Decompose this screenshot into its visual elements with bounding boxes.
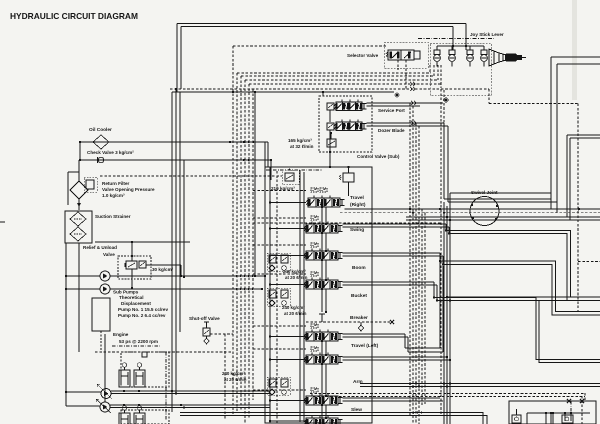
- joystick links: [437, 45, 484, 47]
- pilot row 4: [311, 272, 318, 276]
- motor component left: [512, 415, 521, 423]
- return filter: [67, 172, 69, 205]
- svg-text:Boom: Boom: [352, 265, 366, 271]
- wire: travel left step pair: [405, 347, 440, 349]
- pilot row 5: [311, 324, 318, 328]
- wire: top return pair: [177, 23, 466, 25]
- svg-text:1.0 kg/cm³: 1.0 kg/cm³: [102, 193, 125, 198]
- wire: inter-valve stubs: [321, 207, 323, 224]
- wire: left edge tick: [0, 221, 5, 223]
- bottom valve partial: [306, 418, 338, 424]
- svg-text:Joy Stick Lever: Joy Stick Lever: [470, 32, 504, 37]
- svg-text:Relief & Unload: Relief & Unload: [83, 245, 117, 250]
- wire: tank feed verticals: [65, 243, 67, 406]
- svg-text:30 kg/cm²: 30 kg/cm²: [152, 267, 174, 272]
- engine: [92, 298, 110, 331]
- wire: valve inlet connectors: [270, 202, 306, 204]
- sub pump 1: [100, 271, 110, 281]
- slew valve: [306, 396, 338, 405]
- svg-text:Control Valve (Sub): Control Valve (Sub): [357, 154, 400, 159]
- pilot row 7: [311, 388, 318, 392]
- wire: pilot dashed horizontals to joystick: [233, 45, 386, 47]
- svg-text:at 20 ℓ/min: at 20 ℓ/min: [285, 275, 308, 280]
- pump cylinder 3: [119, 413, 130, 424]
- dozer blade valve: [336, 122, 362, 131]
- svg-text:Oil Cooler: Oil Cooler: [89, 127, 112, 133]
- swing valve: [306, 224, 338, 233]
- wire: staircase A: [446, 231, 571, 298]
- svg-text:Slew: Slew: [351, 407, 362, 413]
- wire: bottom long pair: [360, 383, 600, 385]
- svg-text:Arm: Arm: [353, 379, 363, 385]
- svg-text:Sub Pumps: Sub Pumps: [113, 290, 139, 295]
- wire: staircase A bottom pair: [447, 296, 600, 298]
- svg-text:Return Filter: Return Filter: [102, 181, 130, 186]
- wire: dashed service line: [95, 351, 233, 353]
- pilot row 2: [311, 216, 318, 220]
- wire: joystick drop lines: [465, 24, 467, 51]
- main pump 1: [101, 389, 111, 399]
- svg-text:Pump No. 1 15.5 cc/rev: Pump No. 1 15.5 cc/rev: [118, 307, 168, 312]
- svg-text:Swing: Swing: [350, 227, 364, 233]
- wire: supply bus: [269, 167, 271, 423]
- motor component right: [562, 415, 573, 423]
- motor internal bus: [527, 412, 590, 414]
- wire: check valve line: [80, 159, 271, 161]
- svg-text:Engine: Engine: [113, 332, 129, 337]
- wire: swivel bundle pair: [406, 216, 600, 218]
- relief cluster boom: [269, 255, 276, 263]
- relief cluster arm: [269, 379, 276, 387]
- wire: sub pump lines: [66, 275, 100, 277]
- pump cylinder 4: [134, 413, 145, 424]
- wire: engine to pumps: [104, 334, 106, 402]
- svg-text:Suction Strainer: Suction Strainer: [95, 214, 131, 219]
- svg-text:(Right): (Right): [350, 202, 366, 208]
- svg-text:HYDRAULIC CIRCUIT DIAGRAM: HYDRAULIC CIRCUIT DIAGRAM: [10, 11, 138, 21]
- bucket valve: [306, 280, 338, 289]
- pilot row 6: [311, 347, 318, 351]
- wire: top swivel line: [450, 192, 551, 194]
- wire: dozer lines: [367, 122, 445, 124]
- wire: cooler line: [80, 141, 268, 143]
- joystick dashed frame: [430, 43, 491, 95]
- wire: swash arrows: [97, 384, 112, 399]
- travel right valve: [308, 198, 340, 207]
- wire: dash-dot link y170: [266, 169, 322, 171]
- wire: long left supply verticals: [171, 92, 173, 412]
- svg-text:Dozer Blade: Dozer Blade: [378, 128, 405, 133]
- wire: bottom bus lines: [180, 412, 306, 414]
- svg-text:53 ps @ 2200 rpm: 53 ps @ 2200 rpm: [119, 339, 158, 344]
- wire: boom to staircase B: [343, 252, 441, 254]
- wire: swing to staircase A: [343, 223, 447, 225]
- main pump assembly box: [121, 352, 169, 387]
- wire: slew lines: [343, 397, 441, 399]
- main control valve box: [265, 167, 372, 423]
- wire: dashed return y176: [100, 175, 282, 177]
- svg-text:Valve Opening Pressure: Valve Opening Pressure: [102, 187, 155, 192]
- svg-text:Travel: Travel: [350, 195, 364, 201]
- wire: unload out: [146, 264, 181, 266]
- svg-text:at 20 ℓ/min: at 20 ℓ/min: [284, 311, 307, 316]
- main pump 2: [100, 402, 110, 412]
- pump cylinder 1: [119, 370, 130, 387]
- bottom right motor box: [509, 401, 596, 424]
- svg-text:Valve: Valve: [103, 252, 115, 257]
- wire: swivel bundle dashed: [340, 212, 600, 214]
- main relief 210: [285, 173, 294, 181]
- wire: pump delivery lines: [66, 391, 101, 393]
- wire: staircase B: [440, 261, 600, 312]
- wire: right mid corner outputs: [567, 134, 600, 136]
- wire: travel left ends: [443, 333, 445, 335]
- wire: pilot risers right of box: [440, 89, 442, 415]
- wire: inner buses: [299, 170, 301, 420]
- wire: subpump supply riser: [254, 92, 256, 276]
- svg-text:240 kg/cm³: 240 kg/cm³: [283, 269, 306, 274]
- svg-text:Selector Valve: Selector Valve: [347, 53, 379, 58]
- wire: staircase C: [434, 298, 600, 360]
- wire: swivel bundle line1: [345, 208, 600, 210]
- svg-text:240 kg/cm³: 240 kg/cm³: [222, 371, 245, 376]
- service port valve: [336, 102, 362, 111]
- svg-text:Displacement: Displacement: [121, 301, 151, 306]
- arm valve: [306, 355, 338, 364]
- svg-text:at 20 ℓ/min: at 20 ℓ/min: [224, 377, 247, 382]
- oil cooler: [93, 135, 109, 149]
- control valve sub box: [319, 96, 372, 152]
- wire: joystick pilot drops: [429, 65, 431, 73]
- wire: long center verticals: [443, 202, 445, 424]
- wire: arm lines: [343, 356, 448, 358]
- wire: left verticals from top pair: [176, 24, 178, 93]
- wire: dashed right path: [488, 89, 490, 104]
- wire: service port lines: [367, 102, 444, 104]
- wire: bottom loop pair: [306, 413, 483, 424]
- wire: right top corner outputs: [551, 56, 600, 58]
- svg-text:Pump No. 2 6.4 cc/rev: Pump No. 2 6.4 cc/rev: [118, 313, 166, 318]
- wire: bucket to staircase C: [343, 281, 435, 283]
- svg-text:at 32 ℓ/min: at 32 ℓ/min: [290, 144, 314, 149]
- wire: dozer risers: [443, 90, 445, 123]
- svg-text:165 kg/cm³: 165 kg/cm³: [288, 138, 312, 143]
- relief cluster bucket: [269, 290, 276, 298]
- wire: unload feed: [95, 241, 190, 243]
- boom valve: [306, 251, 338, 260]
- svg-text:Travel (Left): Travel (Left): [351, 343, 379, 349]
- wire: bottom dashed pair: [310, 393, 585, 395]
- wire: horizontal dashed pilot return y89: [170, 88, 489, 90]
- wire: sub internals: [329, 111, 331, 123]
- wire: pilot dashed links to valves: [253, 190, 306, 192]
- wire: horizontal solid return y92: [172, 91, 394, 93]
- svg-text:Bucket: Bucket: [351, 293, 367, 299]
- svg-text:Check Valve 3 kg/cm²: Check Valve 3 kg/cm²: [87, 150, 134, 155]
- pump cylinder 2: [134, 370, 145, 387]
- wire: selector drops: [405, 60, 407, 89]
- wire: pilot bundle verticals: [232, 46, 234, 415]
- svg-text:Swivel Joint: Swivel Joint: [471, 190, 498, 195]
- wire: subpump inlet dots: [264, 275, 266, 277]
- joystick bellows and grip: [489, 49, 499, 66]
- svg-text:240 kg/cm³: 240 kg/cm³: [282, 305, 305, 310]
- wire: shutoff dashes: [210, 333, 233, 335]
- wire: engine shaft: [100, 331, 102, 352]
- svg-text:Shut-off Valve: Shut-off Valve: [189, 316, 220, 321]
- pilot row 1: [311, 188, 318, 192]
- svg-text:Service Port: Service Port: [378, 108, 405, 113]
- accumulator block: [343, 173, 354, 182]
- sub pump 2: [100, 284, 110, 294]
- travel left valve: [306, 332, 338, 341]
- pilot row 3: [311, 243, 318, 247]
- svg-text:Theoretical: Theoretical: [119, 295, 144, 300]
- wire: travel left lines: [343, 333, 406, 335]
- svg-text:Breaker: Breaker: [350, 315, 368, 321]
